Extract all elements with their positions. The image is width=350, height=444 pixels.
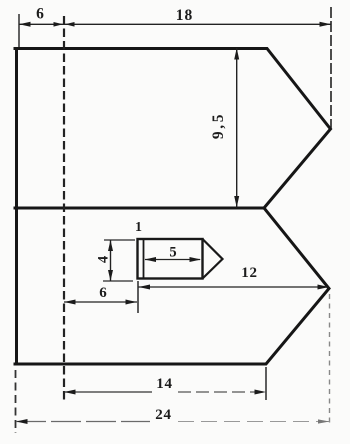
svg-text:14: 14 [156,376,173,392]
svg-text:4: 4 [96,256,112,263]
svg-text:12: 12 [241,265,258,281]
svg-text:18: 18 [176,7,194,24]
svg-text:1: 1 [135,220,142,235]
svg-text:6: 6 [99,285,107,301]
svg-text:24: 24 [155,407,172,423]
svg-text:9,5: 9,5 [210,112,227,139]
svg-text:5: 5 [169,245,176,261]
svg-text:6: 6 [36,6,44,23]
